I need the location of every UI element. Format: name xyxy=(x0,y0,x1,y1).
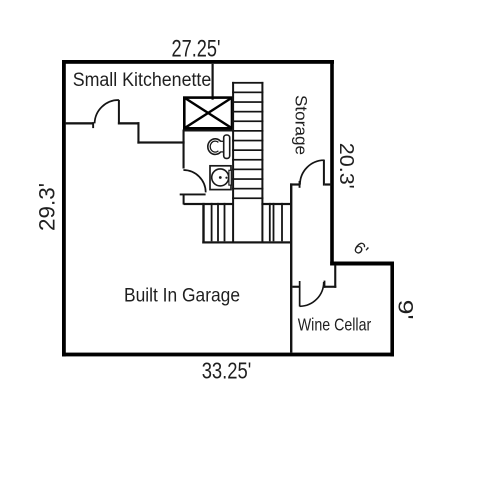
sink xyxy=(210,166,231,190)
wall jut 6ft xyxy=(330,262,394,266)
wall step horizontal xyxy=(137,141,184,143)
svg-text:Storage: Storage xyxy=(292,95,310,155)
wall outer top xyxy=(62,60,334,64)
svg-text:27.25': 27.25' xyxy=(172,36,221,63)
jamb tick kitchenette xyxy=(92,122,94,128)
wall kitchenette bottom right xyxy=(118,122,140,124)
wall storage right xyxy=(325,183,332,185)
wall storage stub xyxy=(290,183,300,185)
stairs band treads left xyxy=(211,203,226,241)
stairs band treads right xyxy=(269,203,283,241)
door leaf kitchenette xyxy=(118,100,120,125)
wall outer right upper xyxy=(330,60,334,265)
wall outer left xyxy=(62,60,66,356)
svg-text:29.3': 29.3' xyxy=(35,183,60,231)
wall wine stub xyxy=(292,286,299,288)
stairs band left wall xyxy=(202,203,204,244)
jamb tick storage left xyxy=(299,181,301,188)
wall vestibule vertical xyxy=(334,265,336,288)
stairs upper treads xyxy=(232,82,263,199)
stairs band bottom xyxy=(202,241,291,243)
svg-text:Small Kitchenette: Small Kitchenette xyxy=(73,70,212,91)
wall bathroom left xyxy=(183,130,185,169)
wall under bathroom arc xyxy=(180,194,206,196)
door arc storage xyxy=(300,160,324,184)
wall outer bottom xyxy=(62,353,394,357)
wall kitchenette bottom left xyxy=(65,122,94,124)
door arc kitchenette xyxy=(95,100,119,123)
shaft X-box xyxy=(184,98,232,129)
sink faucet dot xyxy=(225,177,227,179)
door arc wine xyxy=(300,282,324,306)
svg-text:Built In Garage: Built In Garage xyxy=(124,284,240,306)
door leaf wine xyxy=(299,281,301,307)
wall step below bathroom xyxy=(183,194,185,205)
wall below shaft xyxy=(184,130,232,132)
stairs left rail xyxy=(232,82,234,244)
svg-text:Wine Cellar: Wine Cellar xyxy=(298,315,372,335)
stairs band top left xyxy=(184,203,234,205)
door arc bathroom xyxy=(183,170,205,192)
door leaf storage xyxy=(323,160,325,186)
svg-text:9': 9' xyxy=(394,300,418,320)
stairs band top right xyxy=(261,203,291,205)
wall kitchenette right xyxy=(212,64,214,100)
wall wine cellar top xyxy=(324,286,336,288)
sink dot xyxy=(219,176,222,179)
svg-text:33.25': 33.25' xyxy=(202,358,252,384)
wall outer right lower xyxy=(390,262,394,357)
wall right of stairs / wine cellar left xyxy=(290,183,292,352)
jamb tick wine right xyxy=(324,281,326,288)
stairs right rail xyxy=(261,82,263,244)
wall step vertical xyxy=(137,122,139,143)
toilet xyxy=(208,135,230,158)
svg-text:20.3': 20.3' xyxy=(335,143,358,189)
